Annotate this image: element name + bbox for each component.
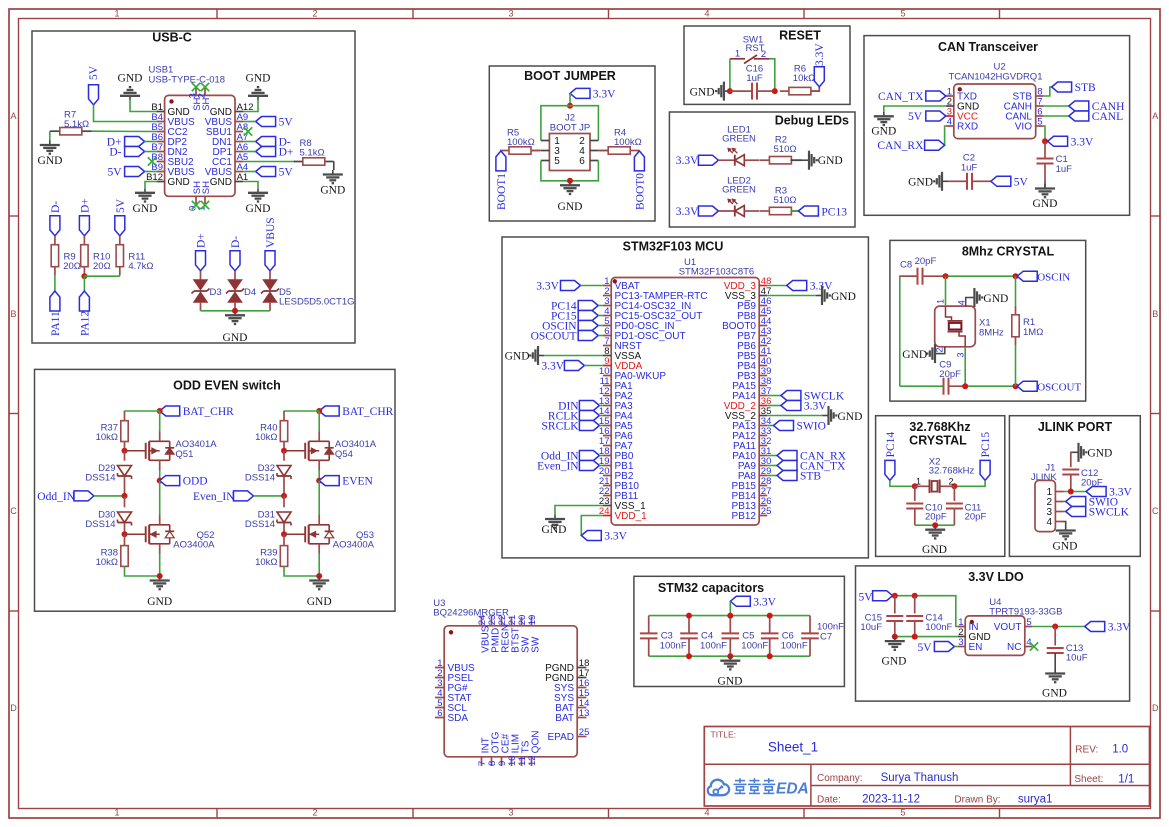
wire A9 to 5V flag (243, 121, 256, 123)
resistor R38 (121, 546, 128, 567)
svg-text:USB-C: USB-C (152, 31, 192, 45)
svg-text:DSS14: DSS14 (85, 519, 115, 530)
U3 top pin 19 SW (531, 617, 533, 626)
net flag 3.3V VDD_1 (581, 531, 601, 541)
wire D+ flag to D3 (200, 271, 202, 280)
svg-text:10kΩ: 10kΩ (793, 73, 815, 84)
USB1 right pin A7 DN1 (235, 141, 243, 143)
U1 left pin 17 PA7 (603, 445, 611, 447)
U1 left pin 24 VDD_1 (603, 515, 611, 517)
svg-text:TITLE:: TITLE: (711, 730, 737, 740)
U1 right pin 34 PA13 (759, 425, 767, 427)
capacitor C4 100nF (688, 616, 690, 634)
svg-text:GND: GND (690, 86, 715, 98)
svg-text:SRCLK: SRCLK (542, 421, 580, 433)
svg-text:3.3V: 3.3V (1108, 622, 1131, 634)
U3 bottom pin 8 OTG (491, 757, 493, 766)
USB1 right pin A6 DP1 (235, 151, 243, 153)
svg-text:1: 1 (916, 476, 921, 486)
U1 right pin 41 PB5 (759, 355, 767, 357)
wire 3.3V to LED2 (718, 210, 734, 212)
wire drain trunk Q54 (318, 411, 320, 432)
svg-text:STM32 capacitors: STM32 capacitors (658, 581, 764, 595)
svg-text:CANL: CANL (1092, 111, 1123, 123)
svg-text:10uF: 10uF (860, 622, 882, 633)
U3 top pin 20 SW (521, 617, 523, 626)
U3 right pin 16 SYS (577, 687, 586, 689)
wire OSCIN to U1 (598, 325, 603, 327)
resistor R1 (1015, 306, 1017, 315)
U4 right pin 4 NC (1025, 646, 1033, 648)
U3 bottom pin 11 TS (521, 757, 523, 766)
svg-text:OSCIN: OSCIN (1037, 271, 1070, 283)
svg-text:3.3V: 3.3V (676, 155, 699, 167)
svg-text:Company:: Company: (817, 773, 863, 784)
svg-text:STM32F103C8T6: STM32F103C8T6 (679, 267, 755, 278)
net flag 3.3V jlink (1086, 487, 1106, 497)
no-connect X on A8 (244, 127, 252, 135)
IC U1 body (611, 278, 759, 526)
wire J1 pin3 to SWCLK (1064, 511, 1066, 513)
svg-text:B: B (1152, 309, 1158, 319)
wire PC15 to X2 pin2 (954, 480, 985, 486)
svg-text:STB: STB (800, 471, 821, 483)
LED LED2 (734, 206, 736, 217)
net flag OSCOUT (1017, 381, 1037, 391)
wire Q53 source to GND (318, 544, 320, 554)
USB1 left pin B12 GND (157, 181, 165, 183)
svg-text:5V: 5V (918, 642, 933, 654)
svg-text:10kΩ: 10kΩ (255, 557, 277, 568)
svg-text:GND: GND (210, 177, 232, 188)
block frame ODD EVEN switch (35, 369, 396, 611)
wire 5V input rail (893, 596, 966, 627)
wire BAT_CHR to R37 (125, 410, 160, 412)
junction gate Q53 (281, 531, 287, 537)
wire RXD to CAN_RX (945, 126, 946, 145)
junction OSCOUT (1013, 383, 1019, 389)
svg-text:3.3V: 3.3V (593, 88, 616, 100)
svg-text:Sheet_1: Sheet_1 (768, 740, 818, 755)
no-connect X on B8 (148, 157, 156, 165)
U1 right pin 37 PA14 (759, 395, 767, 397)
block frame BOOT JUMPER (489, 66, 655, 221)
junction caps bottom rail C4 (686, 653, 692, 659)
wire PA9 to CAN_TX (767, 465, 777, 467)
junction ODD (157, 478, 163, 484)
wire D31 to gate junction Q53 (283, 523, 285, 534)
svg-text:3.3V: 3.3V (753, 596, 776, 608)
ground GND VSS_3 (816, 295, 822, 297)
net flag STB U1 (777, 471, 797, 481)
svg-text:4: 4 (1047, 517, 1053, 528)
U1 left pin 10 PA0-WKUP (603, 375, 611, 377)
svg-text:3: 3 (508, 808, 513, 818)
wire J1 pin2 to SWIO (1064, 501, 1066, 503)
U1 left pin 19 PB1 (603, 465, 611, 467)
svg-text:4: 4 (956, 300, 966, 305)
svg-text:2: 2 (948, 476, 953, 486)
svg-text:GND: GND (38, 155, 63, 167)
svg-text:ODD: ODD (183, 476, 208, 488)
net flag ODD (160, 476, 180, 486)
transistor Q54 AO3401A (304, 443, 306, 459)
J1 pin 2 (1055, 501, 1063, 503)
wire junction to D30 (124, 496, 126, 507)
svg-text:VIO: VIO (1015, 121, 1032, 132)
U1 left pin 18 PB0 (603, 455, 611, 457)
junction crystal GND (932, 522, 938, 528)
junction C14 top (912, 593, 918, 599)
svg-text:3: 3 (955, 352, 965, 357)
wire PA8 to STB (767, 475, 777, 477)
svg-text:20pF: 20pF (965, 512, 987, 523)
junction X1 pin1 top (943, 273, 949, 279)
net flag 3.3V VIO (1048, 136, 1068, 146)
svg-text:5.1kΩ: 5.1kΩ (300, 148, 325, 159)
svg-text:GND: GND (246, 203, 271, 215)
wire TVS common rail (201, 310, 271, 312)
svg-text:REV:: REV: (1075, 745, 1098, 756)
wire D- flag to B7 (145, 151, 157, 153)
svg-text:GND: GND (1042, 688, 1067, 700)
junction C15 bottom (892, 634, 898, 640)
net flag 3.3V reset (814, 67, 824, 87)
svg-text:PC15: PC15 (980, 432, 992, 458)
U1 right pin 42 PB6 (759, 345, 767, 347)
wire GND to B1 (130, 100, 157, 111)
wire VDD_1 to 3.3V (581, 516, 603, 536)
svg-text:Odd_IN: Odd_IN (37, 491, 75, 503)
wire 3.3V to J2 top rail (569, 93, 571, 105)
junction caps bottom rail C6 (767, 653, 773, 659)
svg-text:Drawn By:: Drawn By: (954, 795, 1000, 806)
wire J2 bottom rail (541, 161, 599, 181)
svg-text:A: A (10, 111, 16, 121)
wire caps bottom rail (649, 655, 810, 657)
svg-text:5.1kΩ: 5.1kΩ (64, 119, 89, 130)
wire SW1 right to C16 (769, 59, 774, 91)
wire R40 junction to D32 (283, 451, 285, 461)
wire LED2 to R3 (744, 210, 759, 212)
svg-text:3.3V: 3.3V (676, 206, 699, 218)
svg-text:100kΩ: 100kΩ (507, 137, 535, 148)
svg-text:GND: GND (320, 185, 345, 197)
wire R38 junction (124, 534, 126, 545)
capacitor C1 (1044, 141, 1046, 158)
svg-text:D+: D+ (79, 198, 91, 213)
svg-text:RXD: RXD (957, 121, 978, 132)
no-connect X on U4 NC (1030, 642, 1038, 650)
svg-text:ODD EVEN switch: ODD EVEN switch (173, 379, 281, 393)
svg-text:D+: D+ (279, 146, 294, 158)
U3 top pin 22 REGN (501, 617, 503, 626)
wire A7 to D- flag (243, 141, 256, 143)
svg-text:EPAD: EPAD (548, 732, 575, 743)
svg-text:GND: GND (922, 544, 947, 556)
svg-text:Q51: Q51 (175, 449, 193, 460)
svg-text:CRYSTAL: CRYSTAL (909, 434, 967, 448)
U1 left pin 15 PA5 (603, 425, 611, 427)
svg-text:GND: GND (718, 676, 743, 688)
svg-text:100nF: 100nF (700, 641, 727, 652)
U1 right pin 43 PB7 (759, 335, 767, 337)
svg-text:10kΩ: 10kΩ (96, 557, 118, 568)
block frame STM32F103 MCU (502, 237, 868, 558)
block frame CAN Transceiver (864, 36, 1130, 216)
U4 left pin 3 EN (958, 646, 966, 648)
svg-text:C: C (1152, 506, 1159, 516)
U1 right pin 47 VSS_3 (759, 295, 767, 297)
svg-text:8Mhz CRYSTAL: 8Mhz CRYSTAL (962, 245, 1055, 259)
svg-text:5V: 5V (858, 591, 873, 603)
svg-text:32.768Khz: 32.768Khz (909, 420, 970, 434)
net flag 3.3V VDD_3 (787, 281, 807, 291)
wire 5V flag to B9 (145, 171, 157, 173)
TVS diode D3 (194, 280, 207, 290)
svg-text:GND: GND (1087, 448, 1112, 460)
USB1 left pin B5 CC2 (157, 131, 165, 133)
wire LED1 to R2 (744, 159, 759, 161)
junction R10-R11 (81, 273, 87, 279)
svg-text:QON: QON (531, 731, 542, 754)
wire R7 left to GND (49, 131, 51, 140)
svg-text:GND: GND (505, 351, 530, 363)
U1 left pin 8 VSSA (603, 355, 611, 357)
block frame 32.768Khz CRYSTAL (876, 416, 1005, 557)
wire R7 to B5 (92, 130, 157, 132)
USB1 left pin B9 VBUS (157, 171, 165, 173)
U3 bottom pin 10 ILIM (511, 757, 513, 766)
svg-text:1/1: 1/1 (1118, 774, 1134, 786)
diode D29 DSS14 (118, 466, 132, 477)
svg-text:BAT: BAT (555, 713, 574, 724)
wire Odd_IN to U1 (599, 455, 603, 457)
junction 3.3V rail (567, 103, 573, 109)
wire D30 to gate junction Q52 (124, 523, 126, 534)
U2 left pin 4 RXD (946, 125, 954, 127)
svg-text:DSS14: DSS14 (245, 519, 275, 530)
block frame STM32 capacitors (634, 576, 845, 686)
wire gate Q54 (284, 450, 305, 452)
svg-text:4: 4 (704, 9, 709, 19)
svg-text:C8: C8 (900, 260, 912, 271)
IC U2 body (954, 84, 1036, 139)
U2 right pin 5 VIO (1036, 125, 1044, 127)
U4 right pin 5 VOUT (1025, 626, 1033, 628)
USB1 right pin A4 VBUS (235, 171, 243, 173)
svg-text:19: 19 (527, 615, 538, 626)
svg-text:D-: D- (230, 236, 242, 248)
svg-text:6: 6 (579, 156, 585, 167)
wire R38 to GND rail (125, 566, 160, 576)
svg-text:GND: GND (1033, 198, 1058, 210)
U3 pin1 marker (449, 630, 453, 634)
X1 pin1 wire (945, 276, 947, 306)
wire C1 to GND (1044, 164, 1046, 182)
svg-text:EDA: EDA (776, 781, 809, 798)
U3 right pin 15 SYS (577, 697, 586, 699)
net flag 3.3V ldo out (1085, 622, 1105, 632)
net flag SWIO (774, 421, 794, 431)
ground GND VSS_1 (554, 515, 556, 520)
connector J1 body (1035, 480, 1055, 531)
wire left rail 8Mhz (900, 276, 918, 386)
resistor R10 (83, 236, 85, 245)
svg-text:GND: GND (1053, 541, 1078, 553)
USB1 shield pins SH3 SH2 top (195, 88, 197, 96)
svg-text:SW: SW (531, 636, 542, 653)
net flag 3.3V caps (730, 596, 750, 606)
junction GND rail Q53 (316, 573, 322, 579)
wire R40 to gate junction (283, 442, 285, 451)
svg-text:Sheet:: Sheet: (1074, 774, 1103, 785)
wire caps top rail (649, 615, 810, 617)
block frame 3.3V LDO (856, 566, 1130, 701)
U1 right pin 48 VDD_3 (759, 285, 767, 287)
svg-text:GND: GND (168, 177, 190, 188)
svg-text:D-: D- (109, 146, 121, 158)
wire 5V to B4 (94, 105, 157, 122)
svg-text:EVEN: EVEN (342, 476, 373, 488)
wire gate Q53 (284, 533, 305, 535)
svg-text:12: 12 (527, 755, 538, 766)
ground GND X2 (934, 525, 936, 530)
ground GND J1 pin4 (1065, 526, 1067, 531)
J1 pin 4 (1055, 521, 1063, 523)
svg-text:LESD5D5.0CT1G: LESD5D5.0CT1G (279, 297, 355, 308)
capacitor C14 (914, 596, 916, 614)
U3 left pin 3 PG# (435, 687, 444, 689)
ground GND below R7 (49, 141, 51, 146)
svg-text:GND: GND (871, 126, 896, 138)
svg-text:1: 1 (114, 808, 119, 818)
svg-text:GND: GND (983, 293, 1008, 305)
junction C15 top (892, 593, 898, 599)
wire OSCOUT to U1 (598, 335, 603, 337)
net flag PA11 (50, 291, 60, 311)
svg-text:10kΩ: 10kΩ (96, 432, 118, 443)
resistor R37 (121, 421, 128, 442)
wire B12 to GND (145, 182, 157, 189)
wire Odd_IN to junction (94, 495, 125, 497)
wire J1 pin1 to 3.3V (1064, 491, 1087, 493)
wire A4 to 5V flag (243, 171, 256, 173)
U1 right pin 26 PB13 (759, 505, 767, 507)
svg-text:25: 25 (579, 727, 590, 738)
U1 right pin 30 PA9 (759, 465, 767, 467)
U3 top pin 21 BTST (511, 617, 513, 626)
U2 left pin 3 VCC (946, 115, 954, 117)
svg-text:3: 3 (958, 637, 963, 648)
wire gate Q51 (125, 450, 146, 452)
wire 3.3V to LED1 (718, 159, 734, 161)
wire STB pin to flag (1044, 87, 1052, 96)
J1 pin 1 (1055, 491, 1063, 493)
svg-text:3.3V: 3.3V (536, 281, 559, 293)
svg-text:32.768kHz: 32.768kHz (929, 466, 975, 477)
U2 right pin 6 CANL (1036, 115, 1044, 117)
U1 left pin 23 VSS_1 (603, 505, 611, 507)
ground GND ldo out (1054, 669, 1056, 674)
svg-text:C: C (10, 506, 17, 516)
net flag PA12 (79, 291, 89, 311)
U1 left pin 7 NRST (603, 345, 611, 347)
svg-text:1MΩ: 1MΩ (1023, 327, 1043, 338)
svg-text:2: 2 (197, 93, 208, 98)
svg-text:BOOT0: BOOT0 (634, 173, 646, 210)
svg-text:GND: GND (838, 411, 863, 423)
wire VSS_2 to GND (767, 415, 822, 417)
net flag OSCIN (1017, 271, 1037, 281)
U3 top pin 24 VBUS (481, 617, 483, 626)
U2 left pin 2 GND (946, 105, 954, 107)
svg-text:DSS14: DSS14 (85, 473, 115, 484)
svg-text:GND: GND (558, 201, 583, 213)
resistor R3 (759, 210, 769, 212)
svg-text:GND: GND (133, 203, 158, 215)
svg-text:BOOT JUMPER: BOOT JUMPER (524, 69, 616, 83)
USB1 left pin B4 VBUS (157, 121, 165, 123)
svg-text:6: 6 (437, 708, 442, 719)
net flag SWCLK (781, 391, 801, 401)
capacitor C12 (1070, 469, 1072, 471)
junction gate Q54 (281, 448, 287, 454)
svg-text:STB: STB (1075, 82, 1096, 94)
transistor Q53 AO3400A (304, 526, 306, 542)
net flag CANL (1069, 111, 1089, 121)
svg-text:2: 2 (312, 9, 317, 19)
wire R37 junction to D29 (124, 451, 126, 461)
resistor R2 (759, 159, 769, 161)
junction EVEN (316, 478, 322, 484)
junction gate Q51 (122, 448, 128, 454)
J2 pin row 5-6 (541, 160, 550, 162)
USB1 right pin A1 GND (235, 181, 243, 183)
junction GND rail J2 (567, 178, 573, 184)
title block frame (704, 727, 1149, 807)
wire DIN to U1 (599, 405, 603, 407)
ground GND X1 pin4 (968, 297, 974, 299)
U3 right pin 13 BAT (577, 717, 586, 719)
U3 right pin 14 BAT (577, 707, 586, 709)
svg-text:Even_IN: Even_IN (537, 461, 579, 473)
wire D29 to input junction (124, 477, 126, 496)
U4 left pin 2 GND (958, 636, 966, 638)
wire BAT_CHR to R40 (284, 410, 319, 412)
U1 right pin 46 PB9 (759, 305, 767, 307)
U2 right pin 8 STB (1036, 95, 1044, 97)
U1 left pin 22 PB11 (603, 495, 611, 497)
wire drain trunk Q51 (159, 411, 161, 432)
junction X2 pin1 (912, 483, 918, 489)
U2 right pin 7 CANH (1036, 105, 1044, 107)
USB1 right pin A8 SBU1 (235, 131, 243, 133)
wire ldo gnd rail (895, 636, 958, 638)
svg-text:4: 4 (947, 117, 952, 128)
resistor R9 (54, 236, 56, 245)
wire GND to C2 (948, 180, 961, 182)
U1 left pin 11 PA1 (603, 385, 611, 387)
svg-text:GND: GND (542, 524, 567, 536)
logo JLCEDA chinese characters (734, 778, 747, 793)
ground GND top-left USB-C (129, 96, 131, 101)
resistor R8 (294, 161, 303, 163)
ground GND below A1 (257, 188, 259, 193)
U2 pin1 marker (958, 87, 962, 91)
net flag SWIO jlink (1066, 497, 1086, 507)
wire 3.3V to VDDA (584, 365, 603, 367)
